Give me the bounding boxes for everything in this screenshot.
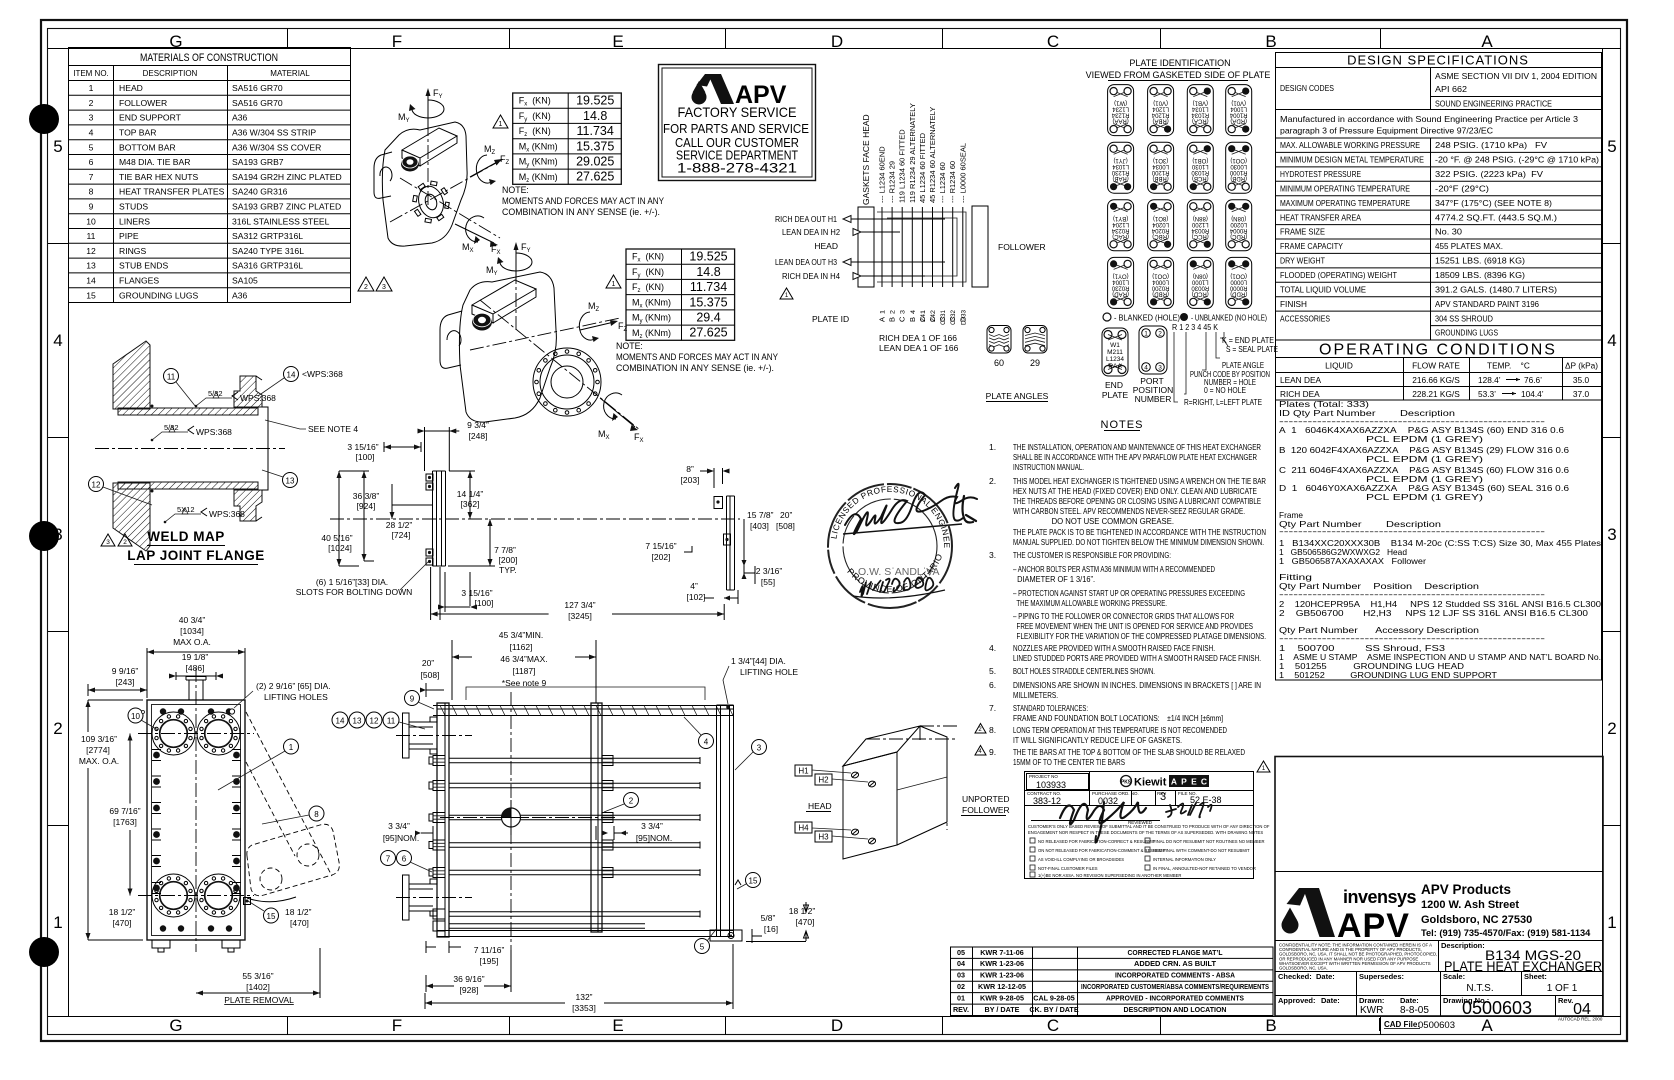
svg-text:(W1): (W1) [1114, 100, 1127, 106]
isometric head sketch 2 [440, 242, 644, 444]
svg-text:36 9/16”: 36 9/16” [453, 974, 484, 984]
svg-text:4: 4 [978, 749, 982, 755]
svg-text:SA516 GR70: SA516 GR70 [232, 83, 283, 93]
svg-text:LINED STUDDED PORTS ARE PROVID: LINED STUDDED PORTS ARE PROVIDED WITH A … [1013, 653, 1261, 663]
svg-text:[403]: [403] [750, 521, 769, 531]
svg-text:8: 8 [314, 810, 319, 819]
svg-text:FLOODED (OPERATING) WEIGHT: FLOODED (OPERATING) WEIGHT [1280, 270, 1397, 280]
svg-text:˂WPS:368: ˂WPS:368 [302, 369, 343, 379]
svg-text:5.: 5. [989, 666, 996, 676]
svg-text:D: D [831, 1016, 843, 1035]
svg-text:(RBA): (RBA) [1152, 118, 1168, 124]
svg-text:[195]: [195] [480, 956, 499, 966]
svg-text:P: P [1181, 777, 1187, 787]
svg-text:DRY WEIGHT: DRY WEIGHT [1280, 256, 1325, 266]
svg-text:45 3/4”MIN.: 45 3/4”MIN. [499, 630, 543, 640]
svg-text:(OB1): (OB1) [1192, 157, 1208, 163]
svg-text:MINIMUM DESIGN METAL TEMPERATU: MINIMUM DESIGN METAL TEMPERATURE [1280, 155, 1424, 165]
svg-text:14.8: 14.8 [583, 109, 607, 123]
svg-text:2: 2 [978, 727, 982, 733]
svg-text:MOMENTS AND FORCES MAY ACT IN: MOMENTS AND FORCES MAY ACT IN ANY [502, 196, 664, 206]
svg-text:104.4’: 104.4’ [1521, 389, 1544, 399]
svg-text:248 PSIG. (1710 kPa) FV: 248 PSIG. (1710 kPa) FV [1435, 140, 1548, 150]
svg-text:15: 15 [86, 290, 96, 300]
svg-text:SA316 GRTP316L: SA316 GRTP316L [232, 261, 303, 271]
svg-text:FINISH: FINISH [1280, 299, 1307, 309]
svg-text:M211: M211 [1107, 349, 1123, 356]
svg-text:--- L1234 60END: --- L1234 60END [878, 146, 887, 203]
svg-text:Mx (KNm): Mx (KNm) [519, 141, 558, 153]
svg-text:------------------------------: ----------------------------------------… [1279, 526, 1545, 536]
svg-text:BY / DATE: BY / DATE [985, 1005, 1020, 1014]
svg-text:THIS MODEL HEAT EXCHANGER IS T: THIS MODEL HEAT EXCHANGER IS TIGHTENED U… [1013, 476, 1266, 486]
svg-text:15: 15 [267, 912, 276, 921]
svg-text:455 PLATES MAX.: 455 PLATES MAX. [1435, 241, 1503, 251]
svg-text:Approved:: Approved: [1278, 996, 1316, 1005]
svg-text:1 OF 1: 1 OF 1 [1547, 983, 1578, 994]
svg-text:55 3/16”: 55 3/16” [242, 971, 273, 981]
svg-text:9: 9 [410, 695, 415, 704]
svg-text:2: 2 [364, 284, 368, 291]
svg-text:My (KNm): My (KNm) [632, 313, 671, 325]
svg-text:MX: MX [598, 429, 610, 441]
svg-text:OPERATING CONDITIONS: OPERATING CONDITIONS [1319, 342, 1557, 359]
svg-text:END SUPPORT: END SUPPORT [119, 113, 182, 123]
svg-text:KWR 1-23-06: KWR 1-23-06 [980, 971, 1024, 980]
engineer stamp [0, 0, 977, 608]
svg-text:5: 5 [1607, 137, 1616, 156]
svg-text:My (KNm): My (KNm) [519, 157, 558, 169]
svg-text:F: F [392, 1016, 402, 1035]
svg-text:KWR: KWR [1360, 1005, 1383, 1016]
svg-text:WPS:368: WPS:368 [240, 393, 276, 403]
svg-text:4: 4 [53, 331, 62, 350]
svg-text:DESCRIPTION: DESCRIPTION [143, 69, 198, 78]
svg-text:SLOTS FOR BOLTING DOWN: SLOTS FOR BOLTING DOWN [296, 587, 413, 597]
svg-text:G: G [169, 32, 182, 51]
svg-text:RICH DEA: RICH DEA [1280, 389, 1320, 399]
svg-text:2: 2 [629, 797, 634, 806]
end support bolting-down drawing [296, 420, 740, 612]
svg-text:MATERIAL: MATERIAL [270, 69, 310, 78]
svg-text:STANDARD TOLERANCES:: STANDARD TOLERANCES: [1013, 703, 1088, 713]
svg-text:Date:: Date: [1321, 996, 1340, 1005]
svg-text:27.625: 27.625 [576, 170, 614, 184]
svg-text:L1034: L1034 [1112, 163, 1129, 169]
front view head with ports (plate removal view) [79, 615, 339, 1005]
svg-text:[2774]: [2774] [86, 745, 110, 755]
svg-text:paragraph 3 of Pressure Equipm: paragraph 3 of Pressure Equipment Direct… [1280, 126, 1493, 136]
svg-text:SA193 GRB7 ZINC PLATED: SA193 GRB7 ZINC PLATED [232, 202, 341, 212]
svg-text:37.0: 37.0 [1573, 389, 1590, 399]
svg-text:THE INSTALLATION, OPERATION AN: THE INSTALLATION, OPERATION AND MAINTENA… [1013, 442, 1261, 452]
svg-text:ADDED CRN. AS BUILT: ADDED CRN. AS BUILT [1134, 959, 1217, 968]
svg-text:FINAL DO NOT RESUBMIT NOT ROUT: FINAL DO NOT RESUBMIT NOT ROUTINES NO ME… [1153, 839, 1265, 844]
svg-text:THE TIE BARS AT THE TOP & BOTT: THE TIE BARS AT THE TOP & BOTTOM OF THE … [1013, 747, 1245, 757]
svg-text:LINERS: LINERS [119, 216, 150, 226]
svg-text:3: 3 [1160, 791, 1166, 803]
svg-text:1: 1 [612, 281, 616, 288]
svg-text:L0204: L0204 [1152, 221, 1169, 227]
svg-text:[100]: [100] [475, 598, 494, 608]
svg-text:L1000: L1000 [1191, 278, 1208, 284]
svg-text:(OO1): (OO1) [1230, 157, 1247, 163]
svg-text:C: C [1047, 32, 1059, 51]
svg-text:NO RELEASED FOR FABRICATION-CO: NO RELEASED FOR FABRICATION-CORRECT & RE… [1038, 839, 1156, 844]
svg-text:PIPE: PIPE [119, 231, 139, 241]
svg-text:HEX NUTS AT THE HEAD (FIXED CO: HEX NUTS AT THE HEAD (FIXED COVER) END O… [1013, 486, 1257, 496]
svg-text:MANUAL SUPPLIED. DO NOT TIGHT: MANUAL SUPPLIED. DO NOT TIGHTEN BELOW TH… [1013, 537, 1264, 547]
svg-text:WPS:368: WPS:368 [209, 509, 245, 519]
svg-text:02: 02 [957, 982, 965, 991]
svg-text:B: B [888, 317, 897, 322]
confidentiality note [1279, 943, 1437, 971]
svg-text:THE THREADS BEFORE OPENING OR: THE THREADS BEFORE OPENING OR CLOSING US… [1013, 496, 1261, 506]
svg-text:A36 W/304 SS STRIP: A36 W/304 SS STRIP [232, 128, 316, 138]
svg-text:TEMP. °C: TEMP. °C [1487, 361, 1530, 371]
svg-text:ASME SECTION VII DIV 1, 2004 E: ASME SECTION VII DIV 1, 2004 EDITION [1435, 71, 1597, 81]
svg-text:2: 2 [890, 310, 897, 314]
svg-text:(88N): (88N) [1193, 215, 1208, 221]
svg-text:PLATE IDENTIFICATION: PLATE IDENTIFICATION [1129, 58, 1230, 68]
svg-text:SA105: SA105 [232, 276, 258, 286]
svg-text:L0030: L0030 [1230, 163, 1247, 169]
force/moment table 2 [626, 249, 735, 340]
svg-text:1: 1 [289, 743, 294, 752]
svg-text:127 3/4”: 127 3/4” [564, 600, 595, 610]
svg-text:DIAMETER OF 1 3/16”.: DIAMETER OF 1 3/16”. [1013, 574, 1095, 584]
svg-text:1 501252 GROUNDING: 1 501252 GROUNDING LUG END SUPPORT [1279, 670, 1497, 680]
svg-text:1: 1 [53, 913, 62, 932]
svg-text:E: E [1191, 777, 1197, 787]
svg-text:Fy (KN): Fy (KN) [632, 267, 664, 279]
svg-text:18 1/2”: 18 1/2” [109, 907, 136, 917]
svg-text:12: 12 [92, 481, 101, 490]
svg-text:MINIMUM OPERATING TEMPERATURE: MINIMUM OPERATING TEMPERATURE [1280, 183, 1410, 193]
svg-text:TOP BAR: TOP BAR [119, 128, 156, 138]
svg-text:[1024]: [1024] [328, 543, 352, 553]
svg-text:PCL EPDM (1 GREY): PCL EPDM (1 GREY) [1279, 492, 1483, 502]
svg-text:FOLLOWER: FOLLOWER [962, 805, 1010, 815]
svg-text:14: 14 [336, 717, 345, 726]
svg-text:(8O1): (8O1) [1153, 215, 1168, 221]
svg-text:2: 2 [53, 719, 62, 738]
svg-text:THE CUSTOMER IS RESPONSIBLE FO: THE CUSTOMER IS RESPONSIBLE FOR PROVIDIN… [1013, 550, 1171, 560]
svg-text:A: A [1481, 1016, 1493, 1035]
svg-text:FRAME CAPACITY: FRAME CAPACITY [1280, 241, 1343, 251]
head box [858, 207, 874, 287]
svg-text:1: 1 [499, 121, 503, 128]
svg-text:Sheet:: Sheet: [1524, 972, 1547, 981]
svg-text:Goldsboro, NC 27530: Goldsboro, NC 27530 [1421, 914, 1532, 926]
svg-text:L1204: L1204 [1152, 106, 1169, 112]
svg-text:Mz (KNm): Mz (KNm) [632, 328, 671, 340]
svg-text:53.3’: 53.3’ [1478, 389, 1496, 399]
svg-text:10: 10 [86, 216, 96, 226]
plate identification grid [1086, 58, 1279, 407]
svg-text:PLATE REMOVAL: PLATE REMOVAL [224, 995, 294, 1005]
warning triangle note2 [606, 275, 621, 288]
svg-text:[1162]: [1162] [509, 642, 532, 652]
svg-text:APPROVED - INCORPORATED COMMEN: APPROVED - INCORPORATED COMMENTS [1106, 993, 1244, 1002]
svg-text:[3353]: [3353] [572, 1003, 596, 1013]
svg-text:[200]: [200] [499, 555, 518, 565]
unported follower isometric box [795, 726, 1010, 859]
svg-text:A36 W/304 SS COVER: A36 W/304 SS COVER [232, 142, 321, 152]
APV logo mark [1303, 888, 1335, 937]
svg-text:SA516 GR70: SA516 GR70 [232, 98, 283, 108]
svg-text:6.: 6. [989, 680, 996, 690]
svg-text:NOTE:: NOTE: [502, 185, 529, 195]
svg-text:(RCA): (RCA) [1192, 118, 1209, 124]
svg-text:[248]: [248] [469, 431, 488, 441]
svg-text:C: C [928, 316, 937, 322]
svg-text:4: 4 [910, 310, 917, 314]
svg-text:APV STANDARD PAINT 3196: APV STANDARD PAINT 3196 [1435, 299, 1539, 309]
svg-text:CK. BY / DATE: CK. BY / DATE [1029, 1005, 1078, 1014]
svg-text:D: D [831, 32, 843, 51]
svg-text:(OO1): (OO1) [1152, 272, 1169, 278]
svg-text:LIFTING HOLE: LIFTING HOLE [740, 667, 798, 677]
svg-text:3 3/4”: 3 3/4” [388, 821, 410, 831]
svg-text:MAXIMUM OPERATING TEMPERATURE: MAXIMUM OPERATING TEMPERATURE [1280, 198, 1410, 208]
svg-text:B: B [1265, 1016, 1276, 1035]
svg-text:AUTOCAD REL. 2000: AUTOCAD REL. 2000 [1558, 1017, 1603, 1022]
svg-text:INTERNAL INFORMATION ONLY: INTERNAL INFORMATION ONLY [1153, 857, 1216, 862]
svg-text:[243]: [243] [116, 677, 135, 687]
svg-text:(OO1): (OO1) [1230, 272, 1247, 278]
svg-text:7.: 7. [989, 703, 996, 713]
svg-text:9 3/4”: 9 3/4” [467, 420, 489, 430]
svg-text:52 E-38: 52 E-38 [1190, 795, 1222, 805]
svg-text:PLATE ID: PLATE ID [812, 314, 849, 324]
svg-text:R0234: R0234 [1111, 227, 1129, 233]
svg-text:(RCC): (RCC) [1192, 233, 1209, 239]
svg-text:4: 4 [1607, 331, 1616, 350]
svg-text:2: 2 [123, 539, 127, 546]
svg-text:Fz (KN): Fz (KN) [519, 126, 551, 138]
svg-text:R1000: R1000 [1229, 169, 1247, 175]
svg-text:KWR 12-12-05: KWR 12-12-05 [978, 982, 1026, 991]
svg-text:5: 5 [53, 137, 62, 156]
svg-text:NOTE:: NOTE: [616, 341, 643, 351]
svg-text:15.375: 15.375 [689, 295, 727, 309]
notes section [975, 419, 1266, 767]
svg-text:LEAN DEA IN H2: LEAN DEA IN H2 [782, 227, 840, 237]
svg-text:*See note 9: *See note 9 [502, 678, 547, 688]
svg-text:3: 3 [89, 113, 94, 123]
svg-text:SA194 GR2H ZINC PLATED: SA194 GR2H ZINC PLATED [232, 172, 342, 182]
svg-text:FRAME AND FOUNDATION BOLT LOCA: FRAME AND FOUNDATION BOLT LOCATIONS: ±1/… [1013, 713, 1223, 723]
svg-text:18509 LBS. (8396 KG): 18509 LBS. (8396 KG) [1435, 270, 1525, 280]
svg-text:36 3/8”: 36 3/8” [353, 491, 380, 501]
svg-text:3: 3 [382, 284, 386, 291]
svg-text:15.375: 15.375 [576, 139, 614, 153]
svg-text:REC FINAL WITH COMMENT-DO NOT: REC FINAL WITH COMMENT-DO NOT RESUBMIT [1153, 848, 1250, 853]
svg-text:5: 5 [700, 943, 705, 952]
svg-text:FY: FY [521, 242, 531, 254]
svg-text:F: F [392, 32, 402, 51]
svg-text:12: 12 [86, 246, 96, 256]
svg-text:MX: MX [462, 242, 474, 254]
stray pen mark [963, 496, 977, 523]
svg-text:R0034: R0034 [1191, 227, 1209, 233]
svg-text:CAD File:: CAD File: [1384, 1020, 1420, 1029]
svg-text:SA240 TYPE 316L: SA240 TYPE 316L [232, 246, 304, 256]
svg-text:HYDROTEST PRESSURE: HYDROTEST PRESSURE [1280, 169, 1361, 179]
svg-text:(OY1): (OY1) [1113, 272, 1129, 278]
follower box [972, 206, 988, 287]
svg-text:L0200: L0200 [1230, 221, 1247, 227]
svg-text:L1234: L1234 [1106, 356, 1124, 363]
svg-text:IT WILL SIGNIFICANTLY REDUCE L: IT WILL SIGNIFICANTLY REDUCE LIFE OF GAS… [1013, 735, 1182, 745]
svg-text:[1034]: [1034] [180, 626, 204, 636]
svg-text:– ANCHOR BOLTS PER ASTM A36 MI: – ANCHOR BOLTS PER ASTM A36 MINIMUM WITH… [1013, 564, 1215, 574]
svg-text:35.0: 35.0 [1573, 375, 1590, 385]
svg-text:L1030: L1030 [1191, 163, 1208, 169]
svg-text:RICH DEA 1 OF 166: RICH DEA 1 OF 166 [879, 333, 957, 343]
punch code legend [1172, 322, 1278, 407]
svg-text:[1763]: [1763] [113, 817, 137, 827]
svg-text:[924]: [924] [357, 501, 376, 511]
title block [1275, 757, 1603, 1032]
svg-text:19.525: 19.525 [576, 94, 614, 108]
svg-text:ΔP (kPa): ΔP (kPa) [1565, 361, 1598, 371]
svg-text:20”: 20” [780, 510, 792, 520]
svg-text:MY: MY [486, 265, 498, 277]
svg-text:TOTAL LIQUID VOLUME: TOTAL LIQUID VOLUME [1280, 284, 1366, 294]
svg-text:PLATE: PLATE [1102, 390, 1129, 400]
svg-text:H2: H2 [818, 776, 829, 785]
svg-text:------------------------------: ----------------------------------------… [1279, 589, 1545, 599]
svg-text:FX: FX [634, 432, 644, 444]
svg-text:BOLT HOLES STRADDLE CENTERLINE: BOLT HOLES STRADDLE CENTERLINES SHOWN. [1013, 666, 1155, 676]
svg-text:LEAN DEA 1 OF 166: LEAN DEA 1 OF 166 [879, 343, 959, 353]
svg-text:Checked:: Checked: [1278, 972, 1312, 981]
svg-text:CAL 9-28-05: CAL 9-28-05 [1033, 993, 1074, 1002]
svg-text:12: 12 [370, 717, 379, 726]
svg-text:(V01): (V01) [1231, 100, 1246, 106]
zone letters top [169, 29, 1493, 51]
svg-text:8-8-05: 8-8-05 [1400, 1005, 1429, 1016]
svg-text:PCL EPDM (1 GREY): PCL EPDM (1 GREY) [1279, 434, 1483, 444]
svg-text:128.4’: 128.4’ [1478, 375, 1501, 385]
svg-text:RICH DEA OUT H1: RICH DEA OUT H1 [775, 214, 837, 224]
svg-text:1: 1 [785, 293, 789, 299]
svg-text:ACCESSORIES: ACCESSORIES [1280, 313, 1330, 323]
svg-text:0 = NO HOLE: 0 = NO HOLE [1204, 385, 1246, 395]
svg-text:[102]: [102] [687, 592, 706, 602]
svg-text:CUSTOMER’S ONLY BASED REVIEW O: CUSTOMER’S ONLY BASED REVIEW OF SUBMITTA… [1028, 824, 1270, 829]
svg-text:1 3/4”[44] DIA.: 1 3/4”[44] DIA. [731, 656, 786, 666]
svg-text:--- R1234 29: --- R1234 29 [888, 161, 897, 203]
warning triangle near kiewit block [1257, 761, 1270, 772]
svg-text:103933: 103933 [1036, 780, 1066, 790]
svg-text:L1004: L1004 [1230, 106, 1247, 112]
svg-text:11: 11 [387, 717, 396, 726]
svg-text:DIMENSIONS ARE SHOWN IN INCHES: DIMENSIONS ARE SHOWN IN INCHES. DIMENSIO… [1013, 680, 1261, 690]
svg-text:LEAN DEA OUT H3: LEAN DEA OUT H3 [775, 257, 837, 267]
svg-text:(RCB): (RCB) [1192, 175, 1209, 181]
svg-text:(3O1): (3O1) [1153, 157, 1168, 163]
svg-text:FLANGES: FLANGES [119, 276, 159, 286]
svg-text:FOLLOWER: FOLLOWER [119, 98, 167, 108]
svg-text:A36: A36 [232, 290, 248, 300]
svg-text:14: 14 [86, 276, 96, 286]
svg-text:[928]: [928] [460, 985, 479, 995]
svg-text:MAX. ALLOWABLE WORKING PRESSUR: MAX. ALLOWABLE WORKING PRESSURE [1280, 140, 1420, 150]
APV factory service box [659, 65, 816, 181]
svg-text:L1034: L1034 [1191, 106, 1208, 112]
svg-text:HEAD: HEAD [808, 801, 832, 811]
svg-text:L1204: L1204 [1112, 221, 1129, 227]
svg-text:(RDA): (RDA) [1230, 118, 1247, 124]
svg-text:FX: FX [491, 244, 501, 256]
svg-text:03: 03 [957, 971, 965, 980]
svg-text:E: E [612, 1016, 623, 1035]
zone letters bottom [169, 1016, 1493, 1035]
svg-text:1: 1 [880, 310, 887, 314]
svg-text:R1234: R1234 [1111, 112, 1129, 118]
svg-text:PCL EPDM (1 GREY): PCL EPDM (1 GREY) [1279, 454, 1483, 464]
svg-text:B: B [908, 317, 917, 322]
svg-text:L1234: L1234 [1112, 106, 1129, 112]
svg-text:DESCRIPTION AND LOCATION: DESCRIPTION AND LOCATION [1124, 1005, 1227, 1014]
svg-text:14.8: 14.8 [696, 265, 720, 279]
svg-text:2 3/16”: 2 3/16” [756, 566, 783, 576]
svg-text:C: C [918, 316, 927, 322]
svg-text:ITEM NO.: ITEM NO. [73, 69, 109, 78]
svg-text:(RDC): (RDC) [1230, 233, 1247, 239]
svg-text:– PROTECTION AGAINST START UP: – PROTECTION AGAINST START UP OR OPERATI… [1013, 588, 1245, 598]
svg-text:228.21 KG/S: 228.21 KG/S [1412, 389, 1460, 399]
svg-text:A36: A36 [232, 113, 248, 123]
svg-text:VIEWED FROM GASKETED SIDE OF P: VIEWED FROM GASKETED SIDE OF PLATE [1086, 70, 1271, 80]
svg-text:1200 W. Ash Street: 1200 W. Ash Street [1421, 899, 1519, 911]
svg-text:9: 9 [89, 202, 94, 212]
svg-text:- UNBLANKED (NO HOLE): - UNBLANKED (NO HOLE) [1191, 313, 1267, 323]
svg-text:R0230: R0230 [1111, 284, 1129, 290]
svg-text:D: D [958, 316, 967, 322]
svg-text:WELD MAP: WELD MAP [147, 529, 225, 544]
svg-text:FLEXIBILITY FOR THE VARIATION: FLEXIBILITY FOR THE VARIATION OF THE COM… [1013, 631, 1266, 641]
svg-text:Date:: Date: [1316, 972, 1335, 981]
svg-text:WITH CARBON STEEL. APV RECO: WITH CARBON STEEL. APV RECOMMENDS NEVER-… [1013, 506, 1245, 516]
svg-text:THE PLATE PACK IS TO BE TIGHTE: THE PLATE PACK IS TO BE TIGHTENED IN ACC… [1013, 527, 1266, 537]
svg-text:-20°F (29°C): -20°F (29°C) [1435, 183, 1489, 193]
svg-text:29: 29 [1030, 358, 1040, 368]
svg-text:(RDD): (RDD) [1230, 290, 1247, 296]
svg-text:4: 4 [704, 738, 709, 747]
svg-text:3 15/16”: 3 15/16” [347, 442, 378, 452]
force/moment table 1 [513, 93, 622, 184]
svg-text:(BY1): (BY1) [1113, 215, 1128, 221]
svg-text:[16]: [16] [764, 924, 778, 934]
svg-text:PROJECT NO: PROJECT NO [1029, 774, 1058, 779]
svg-text:7 7/8”: 7 7/8” [494, 545, 516, 555]
svg-text:0500603: 0500603 [1462, 998, 1532, 1018]
svg-text:45 R1234 60 ALTERNATELY: 45 R1234 60 ALTERNATELY [928, 107, 937, 203]
svg-text:– PIPING TO THE FOLLOWER OR CO: – PIPING TO THE FOLLOWER OR CONNECTOR GR… [1013, 611, 1234, 621]
weld map lap joint flange drawing [89, 341, 359, 565]
svg-text:4: 4 [1144, 364, 1148, 371]
svg-text:7: 7 [89, 172, 94, 182]
svg-text:INCORPORATED COMMENTS - ABSA: INCORPORATED COMMENTS - ABSA [1115, 971, 1235, 980]
svg-text:[55]: [55] [761, 577, 775, 587]
design specifications table [1276, 53, 1602, 341]
svg-text:46 3/4”MAX.: 46 3/4”MAX. [500, 654, 547, 664]
svg-text:383-12: 383-12 [1033, 796, 1061, 806]
